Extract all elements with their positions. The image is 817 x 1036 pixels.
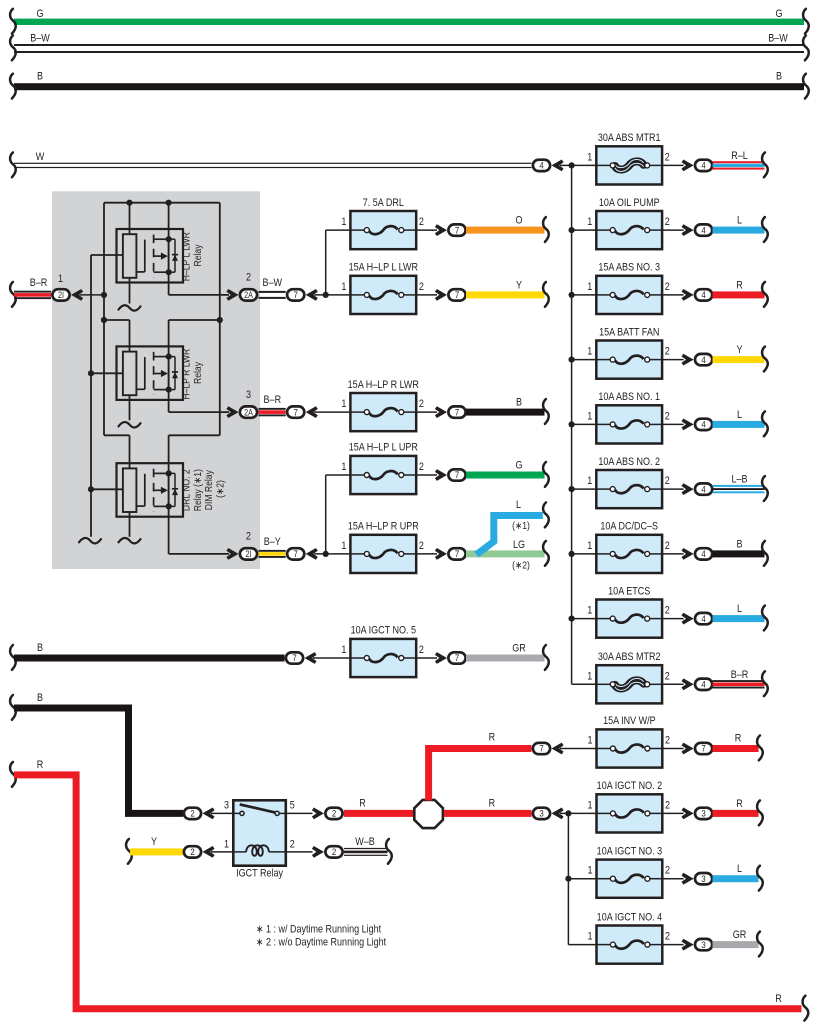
- fuse element: [350, 553, 364, 555]
- svg-text:2: 2: [190, 846, 194, 857]
- gate drive line and arrow: [154, 373, 161, 375]
- wire to relay pin 3: [211, 812, 234, 814]
- fuse element: [596, 164, 610, 166]
- svg-text:4: 4: [701, 548, 705, 559]
- svg-text:7: 7: [455, 548, 459, 559]
- continuation symbol: [762, 217, 768, 242]
- junction coil-rail relay2: [88, 370, 94, 376]
- continuation symbol W-B: [386, 839, 392, 864]
- svg-text:4: 4: [701, 160, 705, 171]
- arrow into connector 3: [682, 939, 694, 951]
- relay IGCT outline: [233, 800, 285, 865]
- svg-text:∗ 2 : w/o Daytime Running Ligh: ∗ 2 : w/o Daytime Running Light: [256, 937, 386, 949]
- wire to fuse: [560, 748, 597, 750]
- arrow into connector 7: [306, 406, 318, 418]
- fuse 10A DC/DC–S: [596, 535, 662, 573]
- fuse output wire: [416, 553, 437, 555]
- fuse element: [596, 423, 610, 425]
- wire W (white): [14, 163, 532, 164]
- relay armature line: [144, 474, 146, 506]
- svg-text:4: 4: [701, 613, 705, 624]
- fuse output wire: [662, 553, 684, 555]
- fuse 10A OIL PUMP: [596, 211, 662, 249]
- continuation symbol: [762, 541, 768, 566]
- wire relay2 coil feed: [104, 319, 130, 321]
- svg-text:7: 7: [539, 743, 543, 754]
- svg-text:Y: Y: [736, 344, 742, 356]
- wire R main feed: [14, 775, 802, 1009]
- wire G: [466, 472, 545, 479]
- fuse 30A ABS MTR1: [596, 146, 662, 184]
- svg-text:1: 1: [587, 216, 592, 228]
- arrow into connector 4: [682, 419, 694, 431]
- svg-text:R–L: R–L: [731, 150, 748, 162]
- svg-text:2: 2: [665, 735, 670, 747]
- wire R up to INV W/P: [429, 749, 532, 801]
- svg-text:3: 3: [224, 800, 229, 812]
- svg-text:(∗1): (∗1): [512, 520, 530, 532]
- connector 2I: [240, 548, 257, 559]
- fuse output wire: [662, 488, 684, 490]
- fuse output wire: [416, 229, 437, 231]
- ground squiggle U1 coil: [119, 305, 141, 310]
- svg-text:7: 7: [292, 652, 296, 663]
- fuse element: [596, 488, 610, 490]
- wire bus inside relay block: [104, 202, 220, 204]
- arrow into connector 4: [682, 224, 694, 236]
- svg-text:2: 2: [665, 540, 670, 552]
- svg-text:LG: LG: [513, 539, 525, 551]
- svg-text:10A IGCT NO. 4: 10A IGCT NO. 4: [597, 912, 663, 924]
- fuse output wire: [416, 657, 437, 659]
- svg-text:7: 7: [455, 407, 459, 418]
- wire GR: [713, 941, 759, 948]
- junction IGCT NO. 3 tap: [565, 876, 571, 882]
- wire bus G (green): [14, 19, 804, 25]
- wire rail to fuse input: [572, 423, 597, 425]
- wire bus B (black): [14, 83, 804, 90]
- wire vertical right supply: [219, 203, 221, 436]
- relay U3 DRL NO. 2 wiring: [129, 435, 131, 468]
- svg-text:2I: 2I: [245, 549, 251, 559]
- arrow into connector 7: [306, 548, 318, 560]
- wire B: [466, 409, 545, 416]
- svg-text:15A ABS NO. 3: 15A ABS NO. 3: [598, 262, 660, 274]
- arrow into connector 4: [682, 613, 694, 625]
- fuse 15A H-LP R LWR: [350, 393, 416, 431]
- fuse element: [596, 359, 610, 361]
- relay coil winding: [233, 851, 246, 853]
- junction on supply rail: [569, 551, 575, 557]
- wire rail to fuse input: [572, 294, 597, 296]
- svg-text:7: 7: [455, 289, 459, 300]
- svg-text:2: 2: [665, 346, 670, 358]
- svg-text:∗ 1 : w/ Daytime Running Light: ∗ 1 : w/ Daytime Running Light: [256, 924, 381, 936]
- continuation symbol: [762, 671, 768, 696]
- wire R: [713, 745, 759, 752]
- continuation symbol G right: [803, 9, 809, 34]
- svg-text:G: G: [36, 8, 43, 20]
- svg-text:R: R: [489, 732, 496, 744]
- fuse element: [597, 878, 611, 880]
- transistor gate (dashed): [153, 352, 155, 395]
- connector 2I input: [52, 289, 69, 300]
- continuation symbol: [543, 462, 549, 487]
- svg-text:1: 1: [58, 273, 63, 285]
- continuation symbol L: [543, 503, 549, 528]
- junction on supply rail: [569, 162, 575, 168]
- arrow into connector 7: [435, 224, 447, 236]
- svg-text:R: R: [489, 798, 496, 810]
- arrow into connector 7: [552, 743, 564, 755]
- continuation symbol: [543, 645, 549, 670]
- arrow into connector 7: [435, 548, 447, 560]
- arrow into connector 2I: [71, 289, 83, 301]
- fuse element: [596, 683, 610, 685]
- svg-text:L: L: [737, 863, 742, 875]
- continuation symbol B left: [10, 74, 16, 99]
- wire rail to fuse input: [572, 618, 597, 620]
- junction right supply relay2: [217, 317, 223, 323]
- continuation symbol B lower: [10, 695, 16, 720]
- connector 7 (INV W/P in): [533, 743, 550, 754]
- arrow into connector 3: [682, 873, 694, 885]
- svg-text:2: 2: [665, 152, 670, 164]
- junction on supply rail: [569, 357, 575, 363]
- continuation symbol: [762, 476, 768, 501]
- fuse output wire: [662, 294, 684, 296]
- wire B–Y: [259, 550, 286, 552]
- junction on supply rail: [569, 227, 575, 233]
- svg-text:3: 3: [539, 808, 543, 819]
- svg-text:7: 7: [455, 652, 459, 663]
- wire rail to fuse input: [572, 488, 597, 490]
- wire to 15A H-LP L LWR: [314, 294, 350, 296]
- wire to 15A H-LP R LWR: [314, 411, 350, 413]
- body diode: [169, 472, 175, 474]
- fuse element: [597, 812, 611, 814]
- svg-text:1: 1: [587, 411, 592, 423]
- wire 7.5A DRL feed: [326, 229, 351, 231]
- svg-text:15A H–LP L UPR: 15A H–LP L UPR: [349, 442, 418, 454]
- connector 4 (W feed): [533, 160, 550, 171]
- fuse 10A IGCT NO. 4: [597, 926, 663, 964]
- svg-text:GR: GR: [733, 929, 747, 941]
- arrow into connector 3: [682, 808, 694, 820]
- continuation symbol: [762, 606, 768, 631]
- svg-text:R: R: [736, 280, 743, 292]
- svg-text:G: G: [775, 8, 782, 20]
- fuse 15A INV W/P: [597, 729, 663, 767]
- wire L: [713, 615, 765, 622]
- wire B to IGCT relay: [14, 708, 183, 813]
- arrow out of relay block: [226, 406, 238, 418]
- relay switch contacts: [233, 812, 240, 814]
- relay block background: [52, 191, 260, 569]
- svg-text:B–Y: B–Y: [264, 536, 281, 548]
- wire relay2 drain feed: [169, 319, 220, 321]
- wire B: [713, 550, 765, 557]
- wire B–R: [713, 680, 765, 682]
- svg-text:(∗2): (∗2): [512, 560, 530, 572]
- connector 3: [695, 808, 712, 819]
- junction coil-rail relay3: [88, 486, 94, 492]
- transistor source stub: [154, 505, 169, 507]
- svg-text:7: 7: [294, 548, 298, 559]
- gate drive line and arrow: [154, 489, 161, 491]
- fuse 7. 5A DRL: [350, 211, 416, 249]
- wire rail to fuse input: [572, 683, 597, 685]
- fuse 15A H-LP L LWR: [350, 276, 416, 314]
- svg-text:10A ABS NO. 2: 10A ABS NO. 2: [598, 456, 660, 468]
- svg-text:2: 2: [665, 800, 670, 812]
- svg-text:B: B: [776, 71, 782, 83]
- svg-text:2: 2: [419, 461, 424, 473]
- connector 4: [695, 289, 712, 300]
- svg-text:Y: Y: [516, 280, 522, 292]
- svg-text:15A INV W/P: 15A INV W/P: [603, 715, 656, 727]
- transistor source junction: [166, 269, 172, 275]
- continuation symbol: [762, 152, 768, 177]
- svg-text:2: 2: [246, 272, 251, 284]
- arrow into connector 2: [312, 846, 324, 858]
- connector 7: [448, 406, 465, 417]
- svg-text:3: 3: [701, 873, 705, 884]
- svg-text:1: 1: [587, 800, 592, 812]
- junction on supply rail: [569, 292, 575, 298]
- transistor channel: [168, 473, 170, 506]
- transistor channel: [168, 357, 170, 390]
- svg-text:2: 2: [419, 540, 424, 552]
- svg-text:30A ABS MTR2: 30A ABS MTR2: [598, 651, 661, 663]
- svg-text:B–W: B–W: [30, 33, 50, 45]
- wire W-B: [344, 848, 388, 849]
- connector 7: [287, 289, 304, 300]
- svg-text:2: 2: [665, 671, 670, 683]
- fuse 10A IGCT NO. 2: [597, 794, 663, 832]
- wire relay3 drain feed: [169, 434, 220, 436]
- relay armature line: [144, 240, 146, 272]
- wire Y: [130, 848, 183, 855]
- continuation symbol: [543, 217, 549, 242]
- svg-text:R: R: [775, 993, 782, 1005]
- wire 2I to relay block: [80, 294, 105, 296]
- svg-text:1: 1: [341, 644, 346, 656]
- wire bus B–W: [14, 45, 804, 52]
- svg-text:1: 1: [341, 461, 346, 473]
- wire R to junction: [344, 810, 416, 817]
- svg-text:B: B: [516, 397, 522, 409]
- svg-text:4: 4: [701, 354, 705, 365]
- wire rail to fuse input: [572, 553, 597, 555]
- connector 7: [448, 548, 465, 559]
- junction H-LP L UPR feed tap: [323, 551, 329, 557]
- wire to relay pin 1: [211, 851, 234, 853]
- svg-text:7: 7: [455, 469, 459, 480]
- connector 4: [695, 354, 712, 365]
- svg-text:1: 1: [587, 605, 592, 617]
- svg-text:15A H–LP R LWR: 15A H–LP R LWR: [348, 379, 419, 391]
- fuse 10A IGCT NO. 3: [597, 860, 663, 898]
- ground squiggle U3 coil: [119, 538, 141, 543]
- svg-text:3: 3: [246, 389, 251, 401]
- svg-text:2A: 2A: [244, 290, 253, 300]
- fuse 10A IGCT NO. 5: [350, 639, 416, 677]
- svg-text:4: 4: [701, 225, 705, 236]
- arrow into connector 4: [682, 678, 694, 690]
- relay coil: [123, 468, 136, 512]
- fuse output wire: [662, 748, 683, 750]
- svg-text:10A IGCT NO. 3: 10A IGCT NO. 3: [597, 846, 663, 858]
- wire GR: [466, 655, 545, 662]
- fuse output wire: [662, 878, 683, 880]
- relay armature line: [144, 357, 146, 389]
- continuation symbol: [543, 399, 549, 424]
- fuse element: [597, 748, 611, 750]
- wire to 15A H-LP R UPR: [314, 553, 350, 555]
- svg-text:W: W: [36, 151, 45, 163]
- svg-text:2: 2: [419, 216, 424, 228]
- svg-text:L: L: [737, 215, 742, 227]
- fuse 15A ABS NO. 3: [596, 276, 662, 314]
- connector 7: [287, 406, 304, 417]
- continuation symbol B right: [803, 74, 809, 99]
- arrow into connector 7: [435, 406, 447, 418]
- svg-text:1: 1: [587, 671, 592, 683]
- svg-text:7. 5A DRL: 7. 5A DRL: [363, 197, 404, 209]
- gate drive line and arrow: [154, 255, 161, 257]
- continuation symbol: [762, 411, 768, 436]
- svg-text:2: 2: [665, 475, 670, 487]
- continuation symbol B-W left: [10, 36, 16, 61]
- transistor gate (dashed): [153, 235, 155, 278]
- wire rail to fuse input: [568, 944, 596, 946]
- arrow out of relay block: [226, 548, 238, 560]
- svg-text:W–B: W–B: [355, 836, 375, 848]
- fuse output wire: [662, 359, 684, 361]
- continuation symbol: [757, 866, 763, 891]
- junction 2I input: [101, 292, 107, 298]
- arrow into connector 2: [312, 808, 324, 820]
- continuation symbol G left: [10, 9, 16, 34]
- svg-text:2: 2: [290, 839, 295, 851]
- connector 4: [695, 548, 712, 559]
- svg-text:1: 1: [587, 281, 592, 293]
- svg-text:B: B: [736, 539, 742, 551]
- arrow into connector 7: [305, 652, 317, 664]
- fuse output wire: [416, 474, 437, 476]
- transistor drain stub: [154, 472, 169, 474]
- svg-text:15A BATT FAN: 15A BATT FAN: [599, 327, 659, 339]
- svg-text:B–W: B–W: [768, 33, 788, 45]
- connector 2A: [240, 289, 257, 300]
- connector 7: [448, 224, 465, 235]
- wire from relay pin 2: [285, 851, 312, 853]
- continuation symbol: [762, 282, 768, 307]
- arrow out of relay block: [226, 289, 238, 301]
- wire L: [713, 227, 765, 234]
- svg-text:B: B: [37, 71, 43, 83]
- relay outline: [117, 229, 184, 283]
- fuse output wire: [662, 812, 683, 814]
- arrow into connector 4: [552, 160, 564, 172]
- svg-text:B: B: [37, 642, 43, 654]
- arrow into connector 4: [682, 160, 694, 172]
- transistor drain junction: [166, 354, 172, 360]
- svg-text:10A IGCT NO. 5: 10A IGCT NO. 5: [351, 625, 417, 637]
- wire 15A H-LP L UPR feed: [326, 474, 351, 476]
- svg-text:1: 1: [587, 931, 592, 943]
- wire R octagon to connector 3: [444, 810, 532, 817]
- svg-text:4: 4: [701, 484, 705, 495]
- svg-text:4: 4: [701, 679, 705, 690]
- fuse output wire: [416, 411, 437, 413]
- arrow into connector 7: [435, 652, 447, 664]
- relay U2 H-LP R LWR wiring: [129, 320, 131, 352]
- relay outline: [117, 346, 184, 400]
- svg-text:R: R: [735, 733, 742, 745]
- svg-text:3: 3: [701, 808, 705, 819]
- connector 4: [695, 679, 712, 690]
- fuse 15A H-LP R UPR: [350, 535, 416, 573]
- svg-text:R: R: [37, 759, 44, 771]
- arrow into connector 7: [435, 289, 447, 301]
- svg-text:2: 2: [419, 644, 424, 656]
- svg-text:1: 1: [341, 398, 346, 410]
- svg-text:R: R: [359, 798, 366, 810]
- connector 3: [695, 939, 712, 950]
- continuation symbol R bottom: [803, 996, 809, 1021]
- junction node (octagon): [414, 800, 443, 828]
- fuse element: [596, 553, 610, 555]
- arrow into connector 4: [682, 289, 694, 301]
- arrow into connector 2: [203, 808, 215, 820]
- fuse output wire: [662, 423, 684, 425]
- connector 4: [695, 224, 712, 235]
- svg-text:1: 1: [587, 735, 592, 747]
- wire rail to fuse input: [572, 164, 597, 166]
- continuation symbol R input: [10, 762, 16, 787]
- svg-text:5: 5: [290, 800, 295, 812]
- fuse 15A H-LP L UPR: [350, 456, 416, 494]
- connector 2A: [240, 406, 257, 417]
- svg-text:B–R: B–R: [264, 394, 282, 406]
- connector 3 (IGCT feed): [533, 808, 550, 819]
- connector 3: [695, 873, 712, 884]
- wire to fuse: [313, 657, 350, 659]
- svg-text:GR: GR: [512, 643, 526, 655]
- ground squiggle U2 coil: [119, 422, 141, 427]
- wire vertical from 2I input: [103, 203, 105, 436]
- wire R: [713, 810, 759, 817]
- svg-text:1: 1: [587, 865, 592, 877]
- svg-text:10A DC/DC–S: 10A DC/DC–S: [600, 521, 658, 533]
- wire R: [713, 291, 765, 298]
- connector 7: [448, 652, 465, 663]
- fuse output wire: [662, 164, 684, 166]
- svg-text:2I: 2I: [58, 290, 64, 300]
- svg-text:IGCT Relay: IGCT Relay: [236, 868, 283, 880]
- svg-text:2A: 2A: [244, 408, 253, 418]
- transistor drain junction: [166, 236, 172, 242]
- connector 7: [448, 469, 465, 480]
- fuse element: [596, 229, 610, 231]
- wire rail to fuse input: [572, 359, 597, 361]
- svg-text:L: L: [737, 409, 742, 421]
- fuse element: [350, 657, 364, 659]
- wire Y: [713, 356, 765, 363]
- svg-text:4: 4: [701, 289, 705, 300]
